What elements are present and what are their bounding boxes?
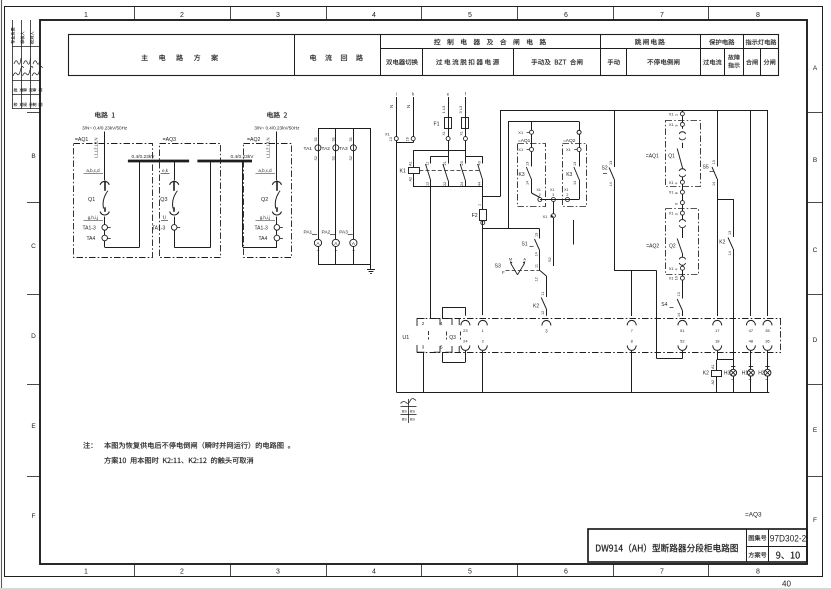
svg-text:1: 1 bbox=[84, 569, 88, 576]
svg-text:F1: F1 bbox=[434, 121, 440, 127]
svg-text:3: 3 bbox=[276, 569, 280, 576]
svg-text:14: 14 bbox=[728, 251, 732, 255]
svg-text:3: 3 bbox=[675, 213, 679, 215]
svg-text:H2: H2 bbox=[758, 371, 765, 377]
svg-text:12: 12 bbox=[426, 182, 430, 186]
svg-text:1 L3: 1 L3 bbox=[441, 105, 446, 114]
svg-text:S2: S2 bbox=[602, 165, 608, 171]
svg-text:13: 13 bbox=[609, 161, 613, 165]
svg-text:=AQ1: =AQ1 bbox=[646, 154, 659, 160]
svg-text:1: 1 bbox=[478, 204, 482, 206]
svg-text:13: 13 bbox=[573, 162, 577, 166]
svg-text:S1: S1 bbox=[314, 137, 318, 141]
svg-text:=AQ2: =AQ2 bbox=[646, 244, 659, 250]
svg-text:5: 5 bbox=[468, 569, 472, 576]
svg-text:4: 4 bbox=[372, 569, 376, 576]
svg-text:5: 5 bbox=[468, 12, 472, 19]
svg-text:24: 24 bbox=[460, 182, 464, 186]
svg-text:f,l: f,l bbox=[163, 215, 166, 220]
svg-text:52: 52 bbox=[680, 338, 685, 343]
svg-text:97D302-2: 97D302-2 bbox=[770, 534, 807, 544]
svg-text:X1: X1 bbox=[566, 147, 572, 152]
svg-text:=AQ3: =AQ3 bbox=[163, 137, 177, 143]
svg-text:48: 48 bbox=[749, 338, 754, 343]
svg-text:TA1-3: TA1-3 bbox=[83, 226, 96, 232]
svg-text:U1: U1 bbox=[402, 335, 409, 341]
svg-text:H1: H1 bbox=[742, 371, 749, 377]
svg-text:3: 3 bbox=[552, 193, 554, 197]
svg-text:1: 1 bbox=[675, 114, 679, 116]
svg-text:PA2: PA2 bbox=[322, 230, 331, 236]
svg-text:14: 14 bbox=[573, 181, 577, 185]
svg-text:14: 14 bbox=[677, 313, 681, 317]
svg-text:22: 22 bbox=[443, 182, 447, 186]
svg-text:3 L3: 3 L3 bbox=[458, 105, 463, 114]
svg-text:K2: K2 bbox=[719, 240, 725, 246]
svg-text:F: F bbox=[32, 513, 36, 520]
svg-text:A2: A2 bbox=[711, 380, 715, 385]
svg-text:E: E bbox=[813, 427, 818, 434]
svg-text:7: 7 bbox=[660, 569, 664, 576]
svg-text:a,b,c,d: a,b,c,d bbox=[258, 168, 272, 173]
svg-text:B: B bbox=[813, 157, 817, 164]
svg-text:47: 47 bbox=[749, 328, 754, 333]
svg-text:PA1: PA1 bbox=[304, 230, 313, 236]
svg-text:2: 2 bbox=[539, 193, 541, 197]
svg-text:X1: X1 bbox=[518, 130, 524, 135]
svg-text:6: 6 bbox=[564, 569, 568, 576]
svg-text:i: i bbox=[396, 92, 397, 97]
svg-text:17: 17 bbox=[715, 328, 720, 333]
svg-text:3: 3 bbox=[675, 125, 679, 127]
svg-text:TA1: TA1 bbox=[304, 146, 313, 152]
svg-text:K2: K2 bbox=[533, 303, 539, 309]
svg-text:A1: A1 bbox=[711, 364, 715, 369]
svg-text:21: 21 bbox=[443, 161, 447, 165]
svg-text:BS: BS bbox=[402, 410, 408, 414]
svg-text:=AQ1: =AQ1 bbox=[518, 138, 531, 144]
svg-text:S2: S2 bbox=[314, 156, 318, 160]
svg-text:13: 13 bbox=[712, 160, 716, 164]
svg-text:14: 14 bbox=[712, 182, 716, 186]
svg-text:23: 23 bbox=[463, 328, 468, 333]
svg-text:13: 13 bbox=[534, 233, 538, 237]
svg-text:24: 24 bbox=[463, 338, 468, 343]
svg-text:13: 13 bbox=[526, 162, 530, 166]
svg-text:Q1: Q1 bbox=[88, 197, 95, 203]
svg-text:7: 7 bbox=[660, 12, 664, 19]
svg-text:X1: X1 bbox=[564, 188, 568, 192]
svg-text:14: 14 bbox=[526, 181, 530, 185]
svg-text:L1,L2,L3,N: L1,L2,L3,N bbox=[266, 138, 271, 159]
svg-text:0.4/0.23kV: 0.4/0.23kV bbox=[231, 154, 255, 160]
svg-text:BS: BS bbox=[410, 418, 416, 422]
svg-text:8: 8 bbox=[756, 569, 760, 576]
svg-text:TA1-3: TA1-3 bbox=[255, 226, 268, 232]
svg-text:a,b,c,d: a,b,c,d bbox=[86, 168, 100, 173]
svg-text:TA3: TA3 bbox=[339, 146, 348, 152]
svg-text:Q1: Q1 bbox=[668, 154, 675, 160]
svg-text:X1: X1 bbox=[537, 188, 541, 192]
svg-text:13: 13 bbox=[677, 292, 681, 296]
svg-text:X1: X1 bbox=[459, 131, 463, 135]
svg-text:4: 4 bbox=[372, 12, 376, 19]
svg-text:C: C bbox=[31, 243, 36, 250]
svg-text:S2: S2 bbox=[349, 156, 353, 160]
svg-text:13: 13 bbox=[389, 137, 393, 141]
svg-text:23: 23 bbox=[460, 161, 464, 165]
svg-text:TA4: TA4 bbox=[259, 236, 268, 242]
svg-text:X1: X1 bbox=[385, 133, 390, 137]
svg-text:=AQ1: =AQ1 bbox=[75, 137, 89, 143]
svg-text:F: F bbox=[813, 517, 817, 524]
svg-text:B: B bbox=[31, 153, 35, 160]
svg-text:=AQ3: =AQ3 bbox=[745, 512, 762, 519]
svg-text:Q2: Q2 bbox=[261, 197, 268, 203]
svg-text:A: A bbox=[813, 65, 818, 72]
svg-text:BS: BS bbox=[410, 410, 416, 414]
svg-text:TA2: TA2 bbox=[322, 146, 331, 152]
svg-text:13: 13 bbox=[728, 231, 732, 235]
svg-text:PA3: PA3 bbox=[339, 230, 348, 236]
svg-text:A: A bbox=[523, 258, 526, 262]
svg-text:Q2: Q2 bbox=[669, 244, 676, 250]
svg-text:F: F bbox=[502, 270, 505, 275]
svg-text:3/N~ 0.4/0.23kV/50Hz: 3/N~ 0.4/0.23kV/50Hz bbox=[82, 126, 128, 131]
svg-text:H3: H3 bbox=[724, 371, 731, 377]
svg-text:8: 8 bbox=[675, 192, 679, 194]
svg-text:36: 36 bbox=[765, 338, 770, 343]
svg-text:X1: X1 bbox=[550, 188, 554, 192]
svg-text:e,k: e,k bbox=[162, 168, 169, 173]
svg-text:43: 43 bbox=[478, 161, 482, 165]
svg-text:40: 40 bbox=[782, 579, 791, 588]
svg-text:4: 4 bbox=[675, 268, 679, 270]
svg-text:g,h,i,j: g,h,i,j bbox=[260, 215, 271, 220]
svg-text:D: D bbox=[813, 337, 818, 344]
svg-text:4: 4 bbox=[675, 182, 679, 184]
svg-text:S5: S5 bbox=[703, 164, 709, 170]
svg-text:K1: K1 bbox=[400, 168, 406, 174]
svg-text:51: 51 bbox=[680, 328, 685, 333]
svg-text:TA4: TA4 bbox=[87, 236, 96, 242]
svg-text:14: 14 bbox=[534, 252, 538, 256]
svg-text:X1: X1 bbox=[543, 214, 549, 219]
svg-text:S4: S4 bbox=[661, 302, 667, 308]
svg-text:1: 1 bbox=[84, 12, 88, 19]
svg-text:BS: BS bbox=[402, 418, 408, 422]
svg-text:D: D bbox=[31, 333, 36, 340]
svg-text:K3: K3 bbox=[519, 172, 525, 178]
svg-text:=AQ2: =AQ2 bbox=[563, 138, 576, 144]
svg-text:K3: K3 bbox=[566, 172, 572, 178]
svg-text:L1,L2,L3,N: L1,L2,L3,N bbox=[94, 138, 99, 159]
svg-text:16: 16 bbox=[406, 137, 410, 141]
svg-text:44: 44 bbox=[478, 182, 482, 186]
svg-text:g,h,i,j: g,h,i,j bbox=[88, 215, 99, 220]
svg-text:11: 11 bbox=[534, 264, 538, 268]
svg-text:14: 14 bbox=[609, 182, 613, 186]
svg-text:A2: A2 bbox=[409, 177, 413, 182]
svg-text:3/N~ 0.4/0.23kV/50Hz: 3/N~ 0.4/0.23kV/50Hz bbox=[254, 126, 300, 131]
svg-text:S3: S3 bbox=[495, 263, 501, 269]
svg-text:35: 35 bbox=[765, 328, 770, 333]
svg-text:6: 6 bbox=[564, 12, 568, 19]
svg-text:2: 2 bbox=[566, 193, 568, 197]
svg-text:11: 11 bbox=[426, 162, 430, 166]
svg-text:S1: S1 bbox=[349, 137, 353, 141]
svg-text:18: 18 bbox=[715, 338, 720, 343]
svg-text:0.4/0.23kV: 0.4/0.23kV bbox=[132, 154, 156, 160]
svg-text:S1: S1 bbox=[522, 241, 528, 247]
svg-text:2: 2 bbox=[180, 12, 184, 19]
svg-text:C: C bbox=[813, 247, 818, 254]
svg-text:K2: K2 bbox=[703, 371, 709, 377]
svg-text:11: 11 bbox=[541, 292, 545, 296]
svg-text:N: N bbox=[389, 105, 394, 108]
svg-text:=AQ2: =AQ2 bbox=[247, 137, 261, 143]
svg-text:F2: F2 bbox=[472, 213, 478, 219]
svg-text:Q3: Q3 bbox=[160, 197, 167, 203]
svg-text:9: 9 bbox=[675, 203, 679, 205]
svg-text:A1: A1 bbox=[409, 161, 413, 166]
svg-text:12: 12 bbox=[541, 311, 545, 315]
svg-text:2: 2 bbox=[180, 569, 184, 576]
svg-text:12: 12 bbox=[534, 277, 538, 281]
svg-text:3: 3 bbox=[276, 12, 280, 19]
svg-text:8: 8 bbox=[756, 12, 760, 19]
svg-text:Q3: Q3 bbox=[449, 335, 456, 341]
svg-text:M: M bbox=[509, 258, 512, 262]
svg-text:X1: X1 bbox=[442, 131, 446, 135]
svg-text:N: N bbox=[406, 105, 411, 108]
svg-text:E: E bbox=[31, 423, 36, 430]
svg-text:10: 10 bbox=[675, 276, 679, 280]
svg-text:S1: S1 bbox=[332, 137, 336, 141]
svg-text:TA1-3: TA1-3 bbox=[152, 226, 165, 232]
svg-text:X1: X1 bbox=[518, 147, 524, 152]
svg-text:S2: S2 bbox=[548, 257, 552, 262]
